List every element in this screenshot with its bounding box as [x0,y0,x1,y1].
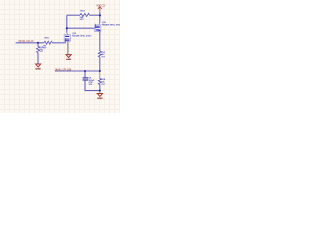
svg-text:X7R: X7R [89,82,93,84]
svg-text:100nF: 100nF [89,80,96,82]
svg-text:Y0?: Y0? [80,19,85,21]
svg-text:16V: 16V [89,84,93,86]
